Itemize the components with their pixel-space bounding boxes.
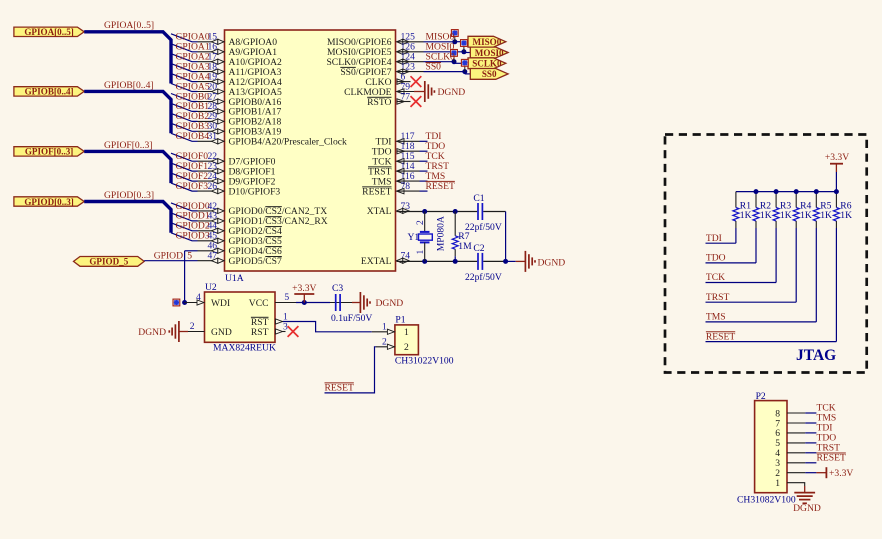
svg-text:+3.3V: +3.3V	[829, 468, 853, 479]
junction R7/C2 bottom	[453, 259, 458, 264]
bus entry / wire GPIOA5	[171, 84, 198, 92]
resistor R5	[815, 192, 817, 208]
svg-text:RST: RST	[251, 327, 269, 338]
svg-text:1: 1	[415, 250, 426, 255]
svg-text:1K: 1K	[840, 210, 852, 221]
U1A left pin stubs and names	[198, 37, 348, 267]
wire vertical to U2 WDI	[184, 251, 186, 303]
wire MISO0 to port	[397, 41, 424, 43]
wire pin 46 branch	[185, 250, 198, 252]
svg-text:DGND: DGND	[538, 257, 566, 268]
port GPIOB[0..4]	[14, 87, 84, 96]
junction rail R4	[794, 189, 799, 194]
port GPIOA[0..5]	[14, 27, 84, 36]
svg-text:GPIOD5/CS7: GPIOD5/CS7	[229, 256, 283, 267]
svg-text:GPIOD[0..3]: GPIOD[0..3]	[104, 190, 154, 201]
P1 pin 1	[372, 331, 395, 333]
bus entry / wire GPIOF0	[171, 153, 198, 161]
bus entry / wire GPIOD2	[171, 223, 198, 231]
svg-text:GPIOD_5: GPIOD_5	[89, 257, 128, 267]
junction SS0	[462, 69, 467, 74]
svg-text:DGND: DGND	[376, 298, 404, 309]
wire TDI in JTAG	[706, 242, 736, 244]
bus entry / wire GPIOF1	[171, 163, 198, 171]
svg-text:31: 31	[208, 131, 218, 142]
svg-text:RESET: RESET	[817, 453, 846, 464]
DGND ground symbol at P2	[804, 486, 806, 493]
svg-text:TMS: TMS	[706, 312, 726, 323]
svg-text:DGND: DGND	[793, 503, 821, 514]
wire TRST in JTAG	[706, 301, 797, 303]
wire JTAG pullup rail	[736, 191, 837, 193]
svg-text:GPIOF[0..3]: GPIOF[0..3]	[25, 147, 74, 157]
svg-text:22pf/50V: 22pf/50V	[465, 222, 502, 233]
svg-text:GPIOB4: GPIOB4	[176, 131, 210, 142]
wire RESET to P1 pin 2	[325, 347, 376, 393]
resistor R7	[454, 212, 456, 236]
wire/net label TCK at U1A	[397, 160, 420, 162]
svg-text:C1: C1	[473, 193, 484, 204]
port GPIOD_5	[74, 257, 145, 267]
no-connect X on CLKO pin 6	[397, 81, 411, 83]
svg-text:C3: C3	[332, 283, 343, 294]
supervisor U2 body	[205, 292, 276, 342]
DGND at C3	[352, 302, 360, 304]
svg-text:JTAG: JTAG	[796, 347, 836, 364]
svg-text:+3.3V: +3.3V	[825, 152, 849, 163]
resistor R3	[775, 192, 777, 208]
svg-text:RESET: RESET	[362, 186, 391, 197]
bus entry / wire GPIOA1	[171, 44, 198, 52]
U1A right pin names and numbers	[326, 32, 415, 267]
bus entry / wire GPIOB0	[171, 94, 198, 102]
junction rail R5	[814, 189, 819, 194]
svg-text:GPIOD3: GPIOD3	[176, 231, 210, 242]
crystal Y1	[424, 212, 426, 232]
svg-text:4: 4	[196, 292, 201, 303]
svg-text:D10/GPIOF3: D10/GPIOF3	[229, 186, 281, 197]
svg-text:XTAL: XTAL	[367, 206, 392, 217]
bus entry / wire GPIOB2	[171, 113, 198, 121]
svg-text:0.1uF/50V: 0.1uF/50V	[331, 313, 372, 324]
svg-text:TDO: TDO	[706, 253, 726, 264]
junction SCLK0	[452, 59, 457, 64]
no-ERC marker MOSI0	[463, 45, 465, 52]
svg-text:1K: 1K	[740, 210, 752, 221]
junction Y1 top	[422, 209, 427, 214]
wire GPIOD_5	[144, 260, 197, 262]
bus entry / wire GPIOF2	[171, 173, 198, 181]
svg-text:1K: 1K	[760, 210, 772, 221]
junction at WDI	[182, 300, 187, 305]
svg-text:P2: P2	[756, 391, 766, 402]
bus entry / wire GPIOB4	[171, 133, 198, 141]
net label SS0 overline	[426, 62, 442, 64]
svg-text:+3.3V: +3.3V	[292, 283, 316, 294]
svg-text:P1: P1	[395, 315, 405, 326]
bus entry / wire GPIOB1	[171, 103, 198, 111]
svg-text:2: 2	[190, 321, 195, 332]
svg-text:DGND: DGND	[138, 327, 166, 338]
bus entry / wire GPIOA3	[171, 64, 198, 72]
svg-text:1: 1	[382, 322, 387, 333]
+3.3V power symbol at U2	[303, 294, 305, 303]
svg-text:CH31082V100: CH31082V100	[737, 494, 796, 505]
+3.3V power symbol in JTAG	[835, 172, 837, 192]
port GPIOD[0..3]	[14, 197, 84, 206]
port MISO0	[468, 36, 506, 47]
svg-text:DGND: DGND	[438, 87, 466, 98]
svg-text:1K: 1K	[800, 210, 812, 221]
svg-text:RESET: RESET	[426, 181, 455, 192]
P1 pin 2	[376, 346, 395, 348]
svg-text:MISO0: MISO0	[472, 37, 501, 47]
resistor R1	[735, 192, 737, 208]
svg-text:22pf/50V: 22pf/50V	[465, 272, 502, 283]
bus entry / wire GPIOD0	[171, 203, 198, 211]
junction rail R2	[754, 189, 759, 194]
svg-text:1: 1	[404, 327, 409, 338]
wire RESET in JTAG	[706, 341, 837, 343]
svg-text:GPIOF[0..3]: GPIOF[0..3]	[104, 140, 153, 151]
svg-text:CH31022V100: CH31022V100	[395, 355, 454, 366]
resistor R4	[795, 192, 797, 208]
resistor R2	[755, 192, 757, 208]
svg-text:MP080A: MP080A	[436, 216, 447, 251]
wire/net label TDI at U1A	[397, 140, 420, 142]
no-ERC marker at WDI	[173, 299, 180, 306]
svg-text:5: 5	[187, 250, 192, 261]
wire EXTAL bottom rail	[397, 260, 478, 262]
junction MISO0	[452, 39, 457, 44]
wire SS0 to port	[397, 71, 424, 73]
svg-text:U1A: U1A	[225, 273, 244, 284]
capacitor C1	[478, 203, 482, 220]
wire/net label TMS at U1A	[397, 180, 420, 182]
svg-text:2: 2	[404, 342, 409, 353]
bus entry / wire GPIOB3	[171, 123, 198, 131]
capacitor C2	[478, 253, 482, 270]
wire/net label TRST at U1A	[397, 170, 420, 172]
wire SCLK0 to port	[397, 61, 424, 63]
wire TMS in JTAG	[706, 321, 817, 323]
bus entry / wire GPIOD3	[171, 233, 198, 241]
svg-text:Y1: Y1	[408, 232, 420, 243]
junction at +3.3V	[302, 300, 307, 305]
svg-text:26: 26	[208, 181, 218, 192]
connector P2 body	[755, 401, 787, 493]
bus entry / wire GPIOA0	[171, 34, 198, 42]
svg-text:GPIOA[0..5]: GPIOA[0..5]	[104, 20, 154, 31]
bus GPIOA[0..5]	[84, 32, 171, 84]
wire TDO in JTAG	[706, 262, 757, 264]
svg-text:5: 5	[284, 292, 289, 303]
svg-text:GPIOA[0..5]: GPIOA[0..5]	[24, 27, 74, 37]
wire XTAL top rail	[397, 211, 478, 213]
wire right vertical C1-C2	[505, 212, 507, 262]
bus entry / wire GPIOA2	[171, 54, 198, 62]
svg-text:GPIOF3: GPIOF3	[176, 181, 209, 192]
JTAG block dashed border	[665, 135, 867, 373]
wire/net label RESET at U1A	[397, 190, 420, 192]
junction Y1 bottom	[422, 259, 427, 264]
port SS0	[470, 69, 508, 80]
svg-text:GPIOD[0..3]: GPIOD[0..3]	[24, 197, 74, 207]
bus GPIOF[0..3]	[84, 151, 171, 183]
svg-text:EXTAL: EXTAL	[361, 256, 392, 267]
svg-text:2: 2	[415, 220, 426, 225]
svg-text:SS0: SS0	[482, 69, 497, 79]
svg-text:GND: GND	[211, 327, 232, 338]
left bus entry net labels and pin numbers	[176, 32, 218, 242]
port SCLK0	[468, 58, 506, 69]
port MOSI0	[470, 47, 508, 58]
svg-text:C2: C2	[473, 243, 484, 254]
wire MOSI0 to port	[397, 51, 424, 53]
no-connect X on RSTO pin 77	[397, 101, 411, 103]
junction MOSI0	[461, 49, 466, 54]
svg-text:1: 1	[775, 478, 780, 489]
svg-text:TDI: TDI	[706, 233, 722, 244]
port GPIOF[0..3]	[14, 147, 84, 156]
svg-text:RESET: RESET	[706, 331, 735, 342]
svg-text:SCLK0: SCLK0	[472, 59, 502, 69]
MCU U1A body	[225, 30, 396, 271]
svg-text:U2: U2	[205, 282, 217, 293]
svg-text:VCC: VCC	[249, 298, 269, 309]
junction DGND bottom	[503, 259, 508, 264]
svg-text:1M: 1M	[458, 241, 472, 252]
bus entry / wire GPIOA4	[171, 74, 198, 82]
svg-text:MOSI0: MOSI0	[475, 48, 504, 58]
svg-text:GPIOB[0..4]: GPIOB[0..4]	[104, 80, 154, 91]
svg-text:MAX824REUK: MAX824REUK	[213, 342, 276, 353]
junction R7/C1 top	[453, 209, 458, 214]
DGND at crystal	[506, 260, 516, 262]
connector P1 body	[395, 325, 419, 355]
wire TCK in JTAG	[706, 282, 777, 284]
svg-text:GPIOB[0..4]: GPIOB[0..4]	[25, 87, 74, 97]
svg-text:WDI: WDI	[211, 298, 230, 309]
wire/net label TDO at U1A	[397, 150, 420, 152]
DGND on CLKMODE pin 79	[397, 91, 415, 93]
capacitor C3	[330, 302, 352, 304]
no-ERC marker SCLK0	[453, 55, 455, 62]
svg-text:TRST: TRST	[706, 292, 730, 303]
U2 pin 4 WDI	[185, 302, 205, 304]
svg-text:1K: 1K	[780, 210, 792, 221]
bus GPIOB[0..4]	[84, 91, 171, 133]
svg-text:GPIOB4/A20/Prescaler_Clock: GPIOB4/A20/Prescaler_Clock	[229, 137, 348, 148]
no-ERC marker MISO0	[454, 35, 456, 42]
svg-text:GPIOD: GPIOD	[154, 250, 183, 261]
svg-text:3: 3	[283, 321, 288, 332]
svg-text:47: 47	[208, 251, 218, 262]
bus entry / wire GPIOD1	[171, 213, 198, 221]
svg-text:1K: 1K	[820, 210, 832, 221]
no-ERC marker SS0	[464, 65, 466, 72]
resistor R6	[835, 192, 837, 208]
junction rail R6	[834, 189, 839, 194]
junction rail R3	[774, 189, 779, 194]
bus GPIOD[0..3]	[84, 202, 171, 233]
svg-text:RSTO: RSTO	[367, 97, 391, 108]
svg-text:RESET: RESET	[325, 382, 354, 393]
bus entry / wire GPIOF3	[171, 183, 198, 191]
+3.3V power symbol at P2	[816, 472, 826, 474]
svg-text:2: 2	[382, 337, 387, 348]
svg-text:TCK: TCK	[706, 272, 725, 283]
